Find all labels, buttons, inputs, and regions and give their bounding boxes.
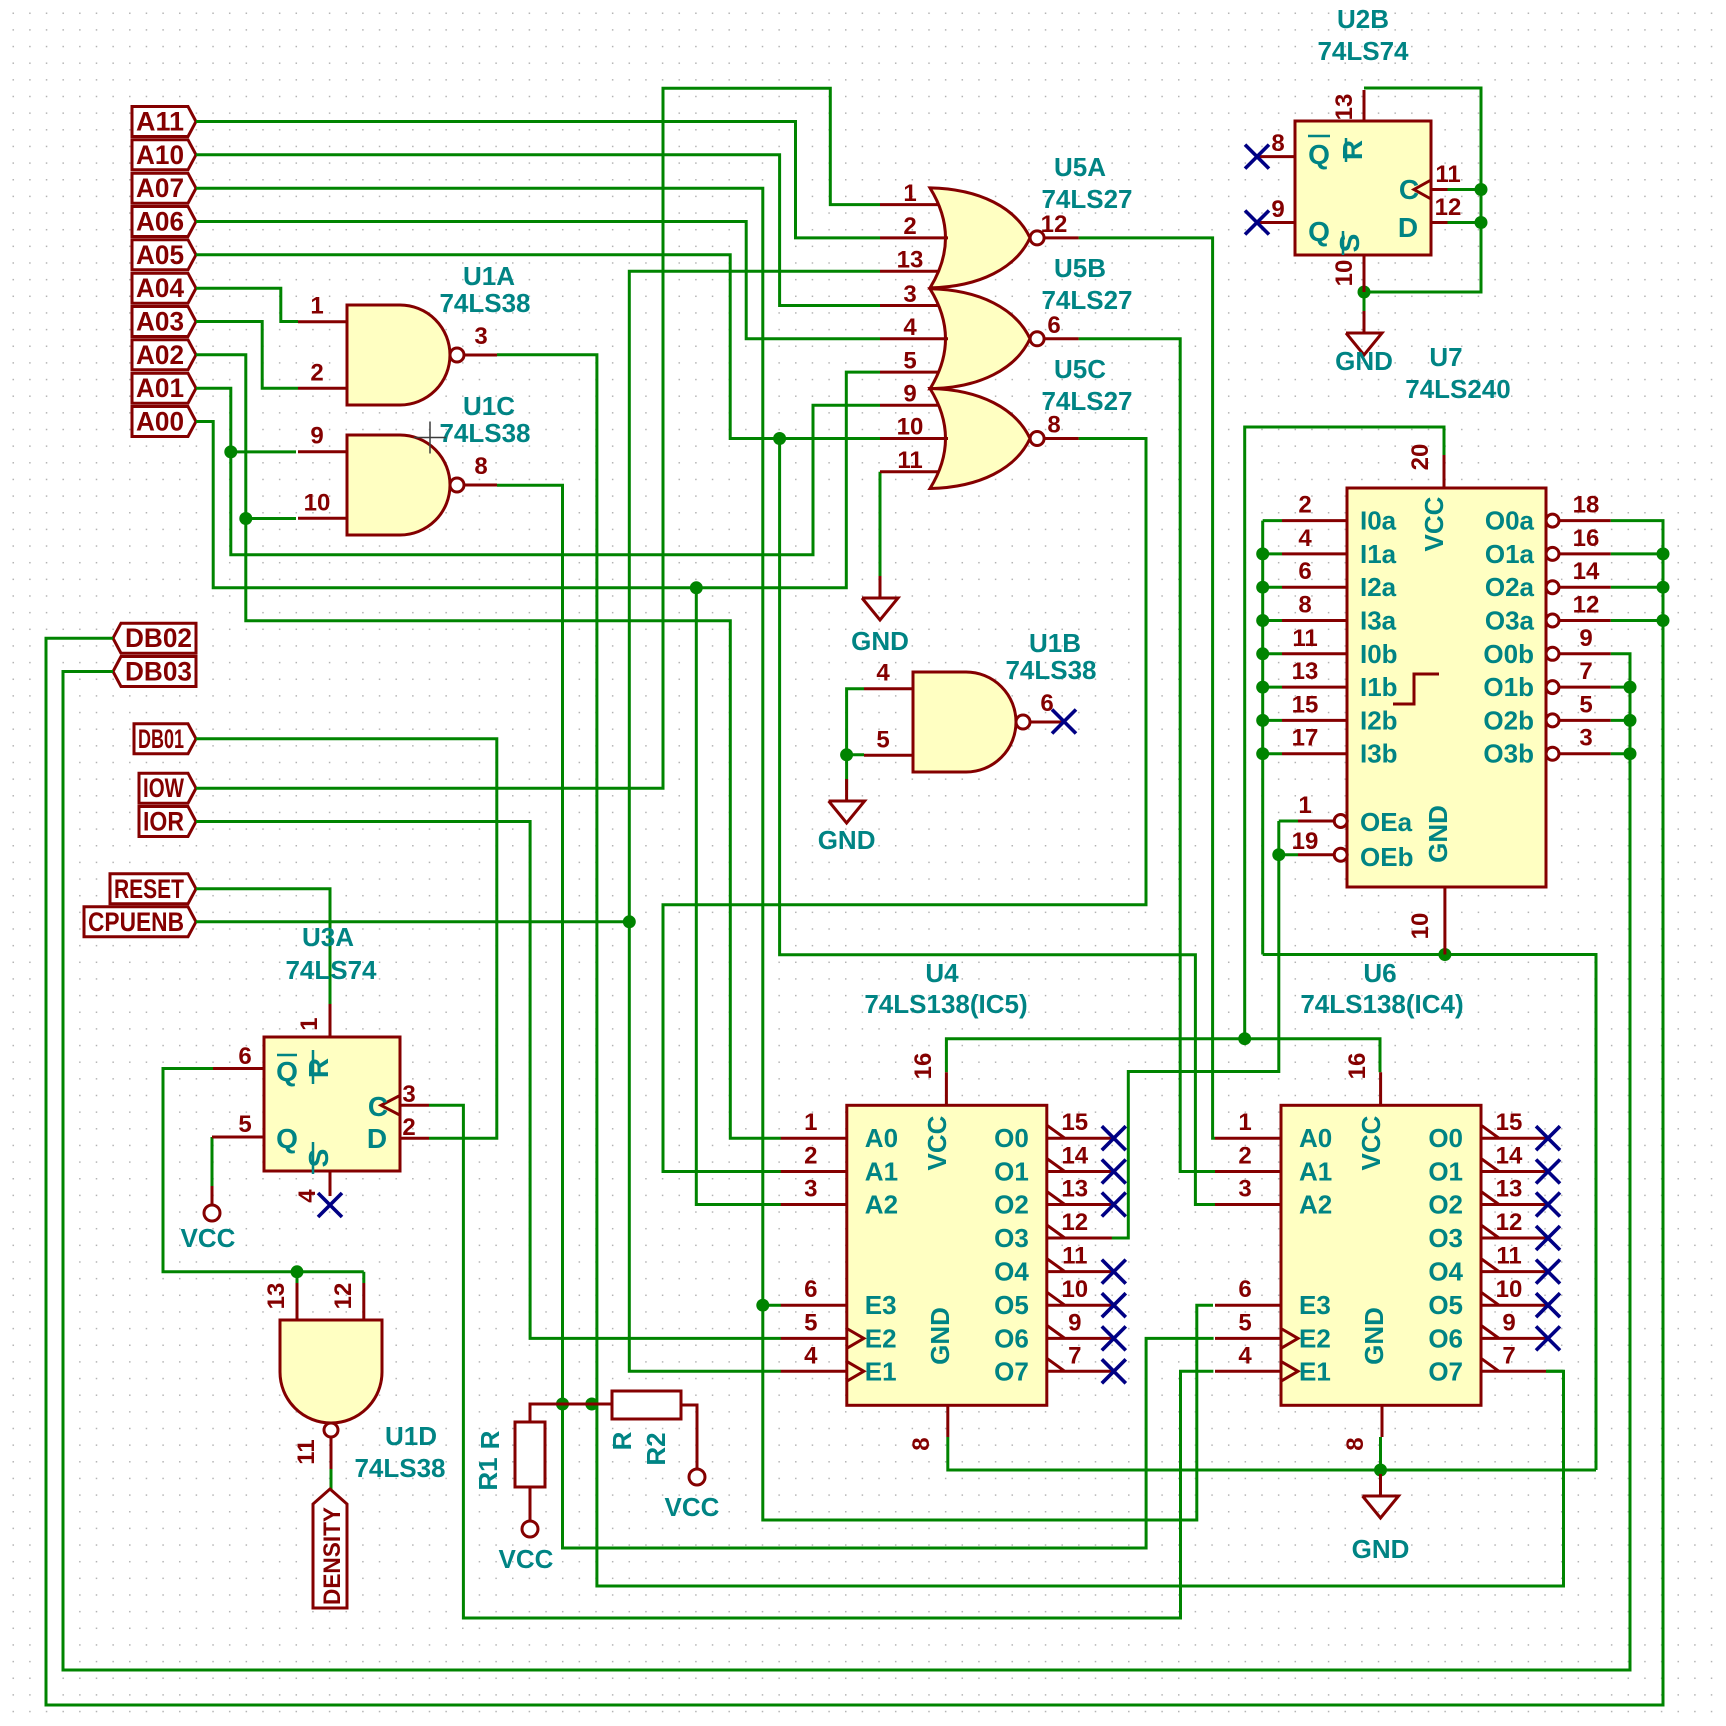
junction — [773, 432, 786, 445]
svg-text:11: 11 — [1496, 1243, 1521, 1270]
svg-text:GND: GND — [1335, 346, 1393, 376]
svg-text:A0: A0 — [1299, 1123, 1332, 1153]
svg-text:1: 1 — [1238, 1109, 1251, 1136]
svg-text:U6: U6 — [1363, 958, 1396, 988]
net label A03 — [132, 307, 196, 337]
svg-text:OEb: OEb — [1360, 842, 1413, 872]
svg-text:Q: Q — [1308, 216, 1330, 247]
svg-text:12: 12 — [1061, 1209, 1088, 1236]
svg-text:5: 5 — [903, 347, 916, 374]
wire A00 branch to U4 A2 — [696, 588, 781, 1205]
svg-text:4: 4 — [903, 314, 917, 341]
wire U7 O1a stub — [1611, 552, 1663, 555]
wire U7 OEb stub — [1279, 853, 1298, 856]
svg-text:10: 10 — [1407, 913, 1434, 940]
junction — [1272, 848, 1285, 861]
svg-text:10: 10 — [1061, 1276, 1088, 1303]
wire DB02 to U7 outputs a — [46, 521, 1663, 1705]
svg-text:20: 20 — [1407, 444, 1434, 471]
resistor R1 — [473, 1404, 612, 1491]
svg-text:4: 4 — [1238, 1342, 1252, 1369]
decoder U4 74LS138 — [781, 958, 1112, 1451]
wire U5C pin 11 to GND — [879, 472, 882, 576]
power VCC below R1 — [499, 1487, 554, 1574]
svg-text:74LS38: 74LS38 — [439, 288, 530, 318]
junction — [1374, 1464, 1387, 1477]
svg-text:O6: O6 — [994, 1323, 1029, 1353]
wire U3A clock to U6 E1 — [429, 1105, 1213, 1618]
svg-text:O1: O1 — [1428, 1157, 1463, 1187]
svg-text:Q: Q — [276, 1123, 298, 1154]
wire U1D output to DENSITY — [330, 1469, 333, 1490]
wire U7 O3a stub — [1611, 619, 1663, 622]
svg-text:10: 10 — [1496, 1276, 1523, 1303]
svg-text:74LS27: 74LS27 — [1041, 386, 1132, 416]
junction — [1256, 547, 1269, 560]
svg-text:E1: E1 — [865, 1356, 897, 1386]
net label A00 — [132, 407, 196, 437]
svg-text:O1b: O1b — [1483, 672, 1534, 702]
svg-text:9: 9 — [903, 381, 916, 408]
svg-text:Q: Q — [1308, 139, 1330, 170]
svg-text:O0b: O0b — [1483, 639, 1534, 669]
net label DENSITY — [313, 1489, 347, 1608]
svg-text:O5: O5 — [1428, 1290, 1463, 1320]
svg-text:S: S — [303, 1149, 334, 1168]
svg-text:14: 14 — [1061, 1143, 1088, 1170]
svg-text:14: 14 — [1573, 558, 1600, 585]
no-connect X — [1536, 1260, 1560, 1284]
svg-text:74LS138(IC4): 74LS138(IC4) — [1300, 989, 1463, 1019]
no-connect X — [1536, 1160, 1560, 1184]
gate U1C 74LS38 — [298, 391, 531, 535]
svg-text:U7: U7 — [1429, 342, 1462, 372]
svg-text:1: 1 — [903, 180, 916, 207]
svg-text:A02: A02 — [136, 340, 184, 370]
svg-text:6: 6 — [1238, 1276, 1251, 1303]
svg-text:C: C — [368, 1091, 388, 1122]
svg-text:2: 2 — [310, 359, 323, 386]
gate U1D 74LS38 — [263, 1283, 446, 1483]
svg-text:4: 4 — [1298, 525, 1312, 552]
svg-text:4: 4 — [804, 1342, 818, 1369]
svg-text:U3A: U3A — [302, 922, 354, 952]
svg-text:9: 9 — [1579, 625, 1592, 652]
wire U7 input stub 6 — [1263, 719, 1282, 722]
wire U7 input stub 3 — [1263, 619, 1282, 622]
svg-text:A06: A06 — [136, 207, 184, 237]
junction — [840, 748, 853, 761]
junction — [1358, 286, 1371, 299]
svg-text:VCC: VCC — [922, 1115, 952, 1170]
svg-text:13: 13 — [897, 246, 924, 273]
svg-text:12: 12 — [1573, 592, 1600, 619]
svg-text:74LS74: 74LS74 — [285, 955, 377, 985]
svg-text:O7: O7 — [994, 1356, 1029, 1386]
junction — [1256, 647, 1269, 660]
svg-text:2: 2 — [1298, 492, 1311, 519]
svg-text:O2a: O2a — [1485, 572, 1535, 602]
svg-text:O3a: O3a — [1485, 606, 1535, 636]
svg-text:11: 11 — [1435, 161, 1460, 188]
svg-text:CPUENB: CPUENB — [88, 907, 184, 937]
svg-text:D: D — [1398, 212, 1418, 243]
svg-text:2: 2 — [804, 1143, 817, 1170]
svg-text:O5: O5 — [994, 1290, 1029, 1320]
svg-text:3: 3 — [1579, 725, 1592, 752]
svg-text:1: 1 — [296, 1017, 323, 1030]
junction — [239, 512, 252, 525]
svg-text:3: 3 — [474, 323, 487, 350]
svg-text:4: 4 — [876, 660, 890, 687]
svg-text:11: 11 — [293, 1439, 320, 1464]
svg-text:74LS38: 74LS38 — [354, 1453, 445, 1483]
svg-text:I1a: I1a — [1360, 539, 1397, 569]
svg-text:VCC: VCC — [181, 1223, 236, 1253]
svg-text:GND: GND — [818, 825, 876, 855]
svg-text:13: 13 — [1331, 94, 1358, 121]
wire A11 to U5A pin 2 — [196, 122, 880, 238]
svg-text:16: 16 — [1573, 525, 1600, 552]
wire U2B pin 11 stub — [1448, 188, 1482, 191]
svg-text:GND: GND — [851, 626, 909, 656]
svg-text:10: 10 — [304, 489, 331, 516]
wire U7 ground rail right — [1263, 955, 1596, 1471]
net label DB03 — [113, 657, 196, 687]
junction — [1256, 581, 1269, 594]
svg-text:GND: GND — [1359, 1307, 1389, 1365]
wire DB03 to U7 outputs b — [63, 654, 1630, 1670]
svg-text:74LS138(IC5): 74LS138(IC5) — [864, 989, 1027, 1019]
wire A04 to U1A pin 1 — [196, 288, 298, 321]
wire A07 to U4 E3 and U6 E3 — [196, 188, 1213, 1520]
svg-text:3: 3 — [402, 1081, 415, 1108]
svg-text:I1b: I1b — [1360, 672, 1398, 702]
svg-text:D: D — [367, 1123, 387, 1154]
junction — [1657, 614, 1670, 627]
svg-text:A2: A2 — [1299, 1190, 1332, 1220]
wire U7 O2b stub — [1611, 719, 1630, 722]
no-connect X — [1102, 1293, 1126, 1317]
svg-text:12: 12 — [1496, 1209, 1523, 1236]
net label IOW — [139, 773, 196, 803]
svg-text:8: 8 — [908, 1437, 935, 1450]
no-connect X — [318, 1193, 342, 1217]
svg-text:O0a: O0a — [1485, 506, 1535, 536]
junction — [1657, 547, 1670, 560]
power VCC at U3A pin 5 — [181, 1186, 236, 1253]
svg-text:O4: O4 — [1428, 1257, 1463, 1287]
ground below U2B — [1335, 311, 1393, 376]
svg-text:Q: Q — [276, 1056, 298, 1087]
wire DB01 to U3A pin 2 — [196, 739, 497, 1138]
svg-text:O4: O4 — [994, 1257, 1029, 1287]
svg-text:GND: GND — [1423, 805, 1453, 863]
wire IOW to U5A pin 1 — [196, 88, 880, 788]
gate U5C 74LS27 — [880, 354, 1133, 489]
svg-text:13: 13 — [1061, 1176, 1088, 1203]
svg-text:IOW: IOW — [143, 773, 184, 803]
svg-text:11: 11 — [897, 447, 922, 474]
wire U7 input stub 1 — [1263, 552, 1282, 555]
svg-text:RESET: RESET — [114, 874, 184, 904]
svg-text:13: 13 — [263, 1283, 290, 1310]
no-connect X — [1102, 1359, 1126, 1383]
svg-text:9: 9 — [1271, 196, 1284, 223]
gate U1A 74LS38 — [298, 261, 531, 405]
ground below U6 — [1352, 1474, 1410, 1564]
wire U6 O7 stub — [1546, 1370, 1564, 1373]
svg-text:18: 18 — [1573, 492, 1600, 519]
wire U1D pin 13 stub — [296, 1272, 299, 1283]
junction — [1438, 948, 1451, 961]
svg-text:A0: A0 — [865, 1123, 898, 1153]
svg-text:VCC: VCC — [1419, 496, 1449, 551]
svg-text:R1: R1 — [473, 1457, 503, 1490]
wire A03 to U1A pin 2 — [196, 322, 298, 389]
no-connect X — [1102, 1260, 1126, 1284]
svg-text:4: 4 — [294, 1189, 321, 1203]
resistor R2 — [607, 1391, 697, 1466]
svg-text:A10: A10 — [136, 140, 184, 170]
wire U6 pin 8 to GND — [1379, 1470, 1382, 1490]
svg-text:74LS27: 74LS27 — [1041, 285, 1132, 315]
svg-text:74LS38: 74LS38 — [1005, 655, 1096, 685]
junction — [1624, 714, 1637, 727]
svg-text:13: 13 — [1292, 658, 1319, 685]
wire A02 to U4 A0 — [196, 355, 781, 1138]
svg-text:11: 11 — [1062, 1243, 1087, 1270]
junction — [690, 581, 703, 594]
wire U1B input 4 — [847, 689, 864, 755]
svg-text:12: 12 — [330, 1283, 357, 1310]
svg-text:E2: E2 — [865, 1323, 897, 1353]
svg-text:I2b: I2b — [1360, 705, 1398, 735]
svg-text:O7: O7 — [1428, 1356, 1463, 1386]
no-connect X — [1102, 1160, 1126, 1184]
wire A01 to U5C pin 9 — [196, 388, 880, 555]
svg-text:9: 9 — [310, 423, 323, 450]
wire A05 branch to U6 A2 — [780, 439, 1215, 1205]
junction — [1475, 216, 1488, 229]
svg-text:6: 6 — [1047, 312, 1060, 339]
svg-text:5: 5 — [238, 1111, 251, 1138]
svg-text:17: 17 — [1292, 725, 1319, 752]
wire U2B pin 13 feedback loop — [1364, 88, 1481, 292]
net label DB01 — [134, 724, 196, 754]
wire A10 to U5B pin 3 — [196, 155, 880, 306]
svg-text:S: S — [1334, 234, 1365, 253]
svg-text:2: 2 — [402, 1114, 415, 1141]
svg-text:I0a: I0a — [1360, 506, 1397, 536]
svg-text:5: 5 — [1579, 691, 1592, 718]
no-connect X — [1102, 1326, 1126, 1350]
svg-text:74LS27: 74LS27 — [1041, 184, 1132, 214]
no-connect X — [1536, 1293, 1560, 1317]
svg-text:A03: A03 — [136, 307, 184, 337]
cursor crosshair artifact — [414, 422, 446, 454]
svg-text:8: 8 — [1271, 130, 1284, 157]
svg-text:2: 2 — [1238, 1143, 1251, 1170]
svg-text:6: 6 — [804, 1276, 817, 1303]
decoder U6 74LS138 — [1215, 958, 1546, 1451]
svg-text:DB03: DB03 — [125, 657, 192, 687]
gate U5B 74LS27 — [880, 253, 1133, 389]
svg-text:O3b: O3b — [1483, 739, 1534, 769]
svg-text:I3a: I3a — [1360, 606, 1397, 636]
svg-text:2: 2 — [903, 213, 916, 240]
svg-text:1: 1 — [1298, 792, 1311, 819]
svg-text:E2: E2 — [1299, 1323, 1331, 1353]
wire U7 OE net to U4 O3 — [1111, 821, 1279, 1238]
wire U4 pin16 to U6 pin16 — [946, 1039, 1380, 1073]
net label A07 — [132, 173, 196, 203]
svg-text:U2B: U2B — [1337, 4, 1389, 34]
svg-text:VCC: VCC — [499, 1544, 554, 1574]
net label DB02 — [113, 623, 196, 653]
svg-text:E1: E1 — [1299, 1356, 1331, 1386]
wire U7 input stub 2 — [1263, 586, 1282, 589]
svg-text:15: 15 — [1061, 1109, 1088, 1136]
svg-text:O2: O2 — [994, 1190, 1029, 1220]
gate U1B 74LS38 — [864, 628, 1097, 772]
svg-text:I0b: I0b — [1360, 639, 1398, 669]
svg-text:74LS74: 74LS74 — [1317, 36, 1409, 66]
svg-text:12: 12 — [1041, 211, 1068, 238]
wire U7 OEa stub — [1279, 820, 1298, 823]
ground below U1B — [818, 779, 876, 855]
svg-text:10: 10 — [1331, 260, 1358, 287]
wire A01 stub into U1C pin 9 — [231, 450, 296, 453]
wire U1C output to U6 E2 — [497, 485, 1214, 1548]
net label CPUENB — [84, 907, 196, 937]
wire U7 pin 20 to enable net — [1245, 427, 1444, 1039]
svg-text:7: 7 — [1502, 1342, 1515, 1369]
svg-text:O2b: O2b — [1483, 705, 1534, 735]
wire U5B output to U6 A1 — [1079, 339, 1215, 1172]
svg-text:IOR: IOR — [143, 807, 184, 837]
junction — [756, 1299, 769, 1312]
no-connect X — [1536, 1326, 1560, 1350]
svg-text:16: 16 — [910, 1053, 937, 1080]
svg-text:7: 7 — [1068, 1342, 1081, 1369]
wire A07 branch to U4 E3 — [763, 1304, 781, 1307]
wire A05 to U5C pin 10 — [196, 255, 880, 439]
svg-text:U1C: U1C — [463, 391, 515, 421]
svg-text:1: 1 — [310, 293, 323, 320]
svg-text:7: 7 — [1579, 658, 1592, 685]
svg-text:8: 8 — [1298, 592, 1311, 619]
no-connect X — [1102, 1193, 1126, 1217]
junction — [1238, 1032, 1251, 1045]
wire U7 input stub 5 — [1263, 686, 1282, 689]
svg-text:A2: A2 — [865, 1190, 898, 1220]
svg-text:6: 6 — [1040, 690, 1053, 717]
svg-text:1: 1 — [804, 1109, 817, 1136]
svg-text:9: 9 — [1068, 1309, 1081, 1336]
svg-text:E3: E3 — [1299, 1290, 1331, 1320]
svg-text:A04: A04 — [136, 273, 184, 303]
svg-text:5: 5 — [804, 1309, 817, 1336]
buffer U7 74LS240 — [1282, 342, 1611, 955]
net label A11 — [132, 107, 196, 137]
junction — [291, 1265, 304, 1278]
wire U3A Q- to U1D inputs — [163, 1069, 364, 1272]
net label A01 — [132, 373, 196, 403]
junction — [1475, 183, 1488, 196]
wire A06 to U5B pin 4 — [196, 222, 880, 339]
svg-text:A01: A01 — [136, 373, 184, 403]
svg-text:A07: A07 — [136, 173, 184, 203]
svg-text:VCC: VCC — [665, 1492, 720, 1522]
svg-text:5: 5 — [876, 726, 889, 753]
svg-text:O2: O2 — [1428, 1190, 1463, 1220]
flip-flop U3A 74LS74 — [212, 922, 429, 1203]
svg-text:15: 15 — [1292, 691, 1319, 718]
svg-text:U5C: U5C — [1054, 354, 1106, 384]
wire U1B input 5 — [847, 753, 864, 756]
svg-text:3: 3 — [903, 281, 916, 308]
svg-text:OEa: OEa — [1360, 807, 1413, 837]
svg-text:5: 5 — [1238, 1309, 1251, 1336]
wire RESET to U3A pin 1 — [196, 889, 330, 1004]
wire U7 tied inputs bus — [1261, 521, 1264, 955]
wire U1B inputs to GND — [845, 755, 848, 790]
junction — [1624, 681, 1637, 694]
svg-text:3: 3 — [1238, 1176, 1251, 1203]
svg-text:R2: R2 — [641, 1432, 671, 1465]
svg-text:10: 10 — [897, 414, 924, 441]
no-connect X — [1536, 1193, 1560, 1217]
svg-text:A05: A05 — [136, 240, 184, 270]
svg-text:11: 11 — [1292, 625, 1317, 652]
svg-text:14: 14 — [1496, 1143, 1523, 1170]
gate U5A 74LS27 — [880, 152, 1133, 288]
junction — [1256, 747, 1269, 760]
svg-text:GND: GND — [1352, 1534, 1410, 1564]
svg-text:DB02: DB02 — [125, 623, 192, 653]
svg-text:19: 19 — [1292, 828, 1319, 855]
no-connect X — [1245, 211, 1269, 235]
net label A02 — [132, 340, 196, 370]
wire IOR to U4 E2 — [196, 822, 781, 1339]
junction — [556, 1398, 569, 1411]
wire U1A output to U6 O7 — [497, 355, 1564, 1586]
svg-text:U1D: U1D — [385, 1421, 437, 1451]
svg-text:16: 16 — [1344, 1053, 1371, 1080]
svg-text:12: 12 — [1435, 194, 1462, 221]
junction — [1256, 614, 1269, 627]
svg-text:O0: O0 — [994, 1123, 1029, 1153]
svg-text:O6: O6 — [1428, 1323, 1463, 1353]
wire U7 O1b stub — [1611, 686, 1630, 689]
no-connect X — [1102, 1126, 1126, 1150]
svg-text:O1: O1 — [994, 1157, 1029, 1187]
svg-text:A1: A1 — [1299, 1157, 1332, 1187]
svg-text:74LS38: 74LS38 — [439, 418, 530, 448]
svg-text:8: 8 — [1342, 1437, 1369, 1450]
svg-text:6: 6 — [1298, 558, 1311, 585]
no-connect X — [1245, 145, 1269, 169]
svg-text:C: C — [1399, 174, 1419, 205]
svg-text:R: R — [1337, 140, 1368, 160]
svg-text:9: 9 — [1502, 1309, 1515, 1336]
svg-text:U1A: U1A — [463, 261, 515, 291]
svg-text:DB01: DB01 — [138, 724, 184, 754]
wire U7 input stub 7 — [1263, 752, 1282, 755]
svg-text:A1: A1 — [865, 1157, 898, 1187]
wire U6 pin 8 stub — [1379, 1437, 1382, 1470]
